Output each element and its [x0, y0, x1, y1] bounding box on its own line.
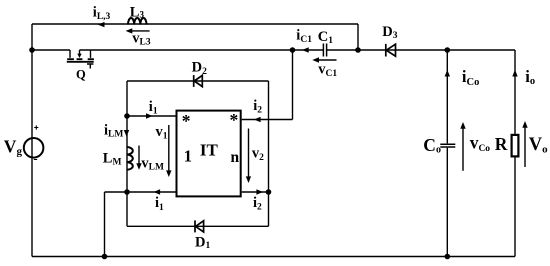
svg-text:D1: D1: [195, 234, 210, 251]
svg-text:iC1: iC1: [296, 28, 312, 46]
svg-text:v2: v2: [252, 146, 264, 164]
svg-text:*: *: [182, 111, 191, 131]
svg-text:Q: Q: [76, 68, 86, 82]
svg-text:Vo: Vo: [529, 135, 548, 155]
svg-text:i2: i2: [253, 195, 262, 213]
svg-text:*: *: [230, 110, 239, 130]
svg-text:D2: D2: [192, 60, 207, 77]
svg-text:io: io: [525, 67, 535, 87]
svg-text:L3: L3: [130, 4, 145, 20]
svg-text:iLM: iLM: [104, 123, 123, 140]
svg-text:Vg: Vg: [4, 136, 23, 157]
svg-text:i1: i1: [149, 99, 158, 117]
svg-text:i1: i1: [155, 195, 164, 213]
svg-text:vCo: vCo: [470, 132, 491, 154]
svg-text:vL3: vL3: [132, 30, 151, 47]
svg-text:iCo: iCo: [462, 67, 479, 88]
svg-text:1: 1: [184, 146, 192, 165]
svg-text:Co: Co: [423, 135, 441, 156]
svg-text:vLM: vLM: [141, 155, 164, 172]
svg-text:i2: i2: [253, 98, 262, 116]
svg-text:v1: v1: [156, 124, 168, 142]
svg-text:D3: D3: [382, 24, 397, 41]
svg-text:iL,3: iL,3: [93, 5, 111, 22]
svg-text:n: n: [231, 149, 240, 166]
svg-text:IT: IT: [200, 140, 219, 159]
svg-text:C1: C1: [318, 29, 333, 46]
svg-text:R: R: [495, 134, 508, 154]
svg-text:LM: LM: [103, 150, 122, 167]
svg-text:vC1: vC1: [318, 62, 337, 80]
